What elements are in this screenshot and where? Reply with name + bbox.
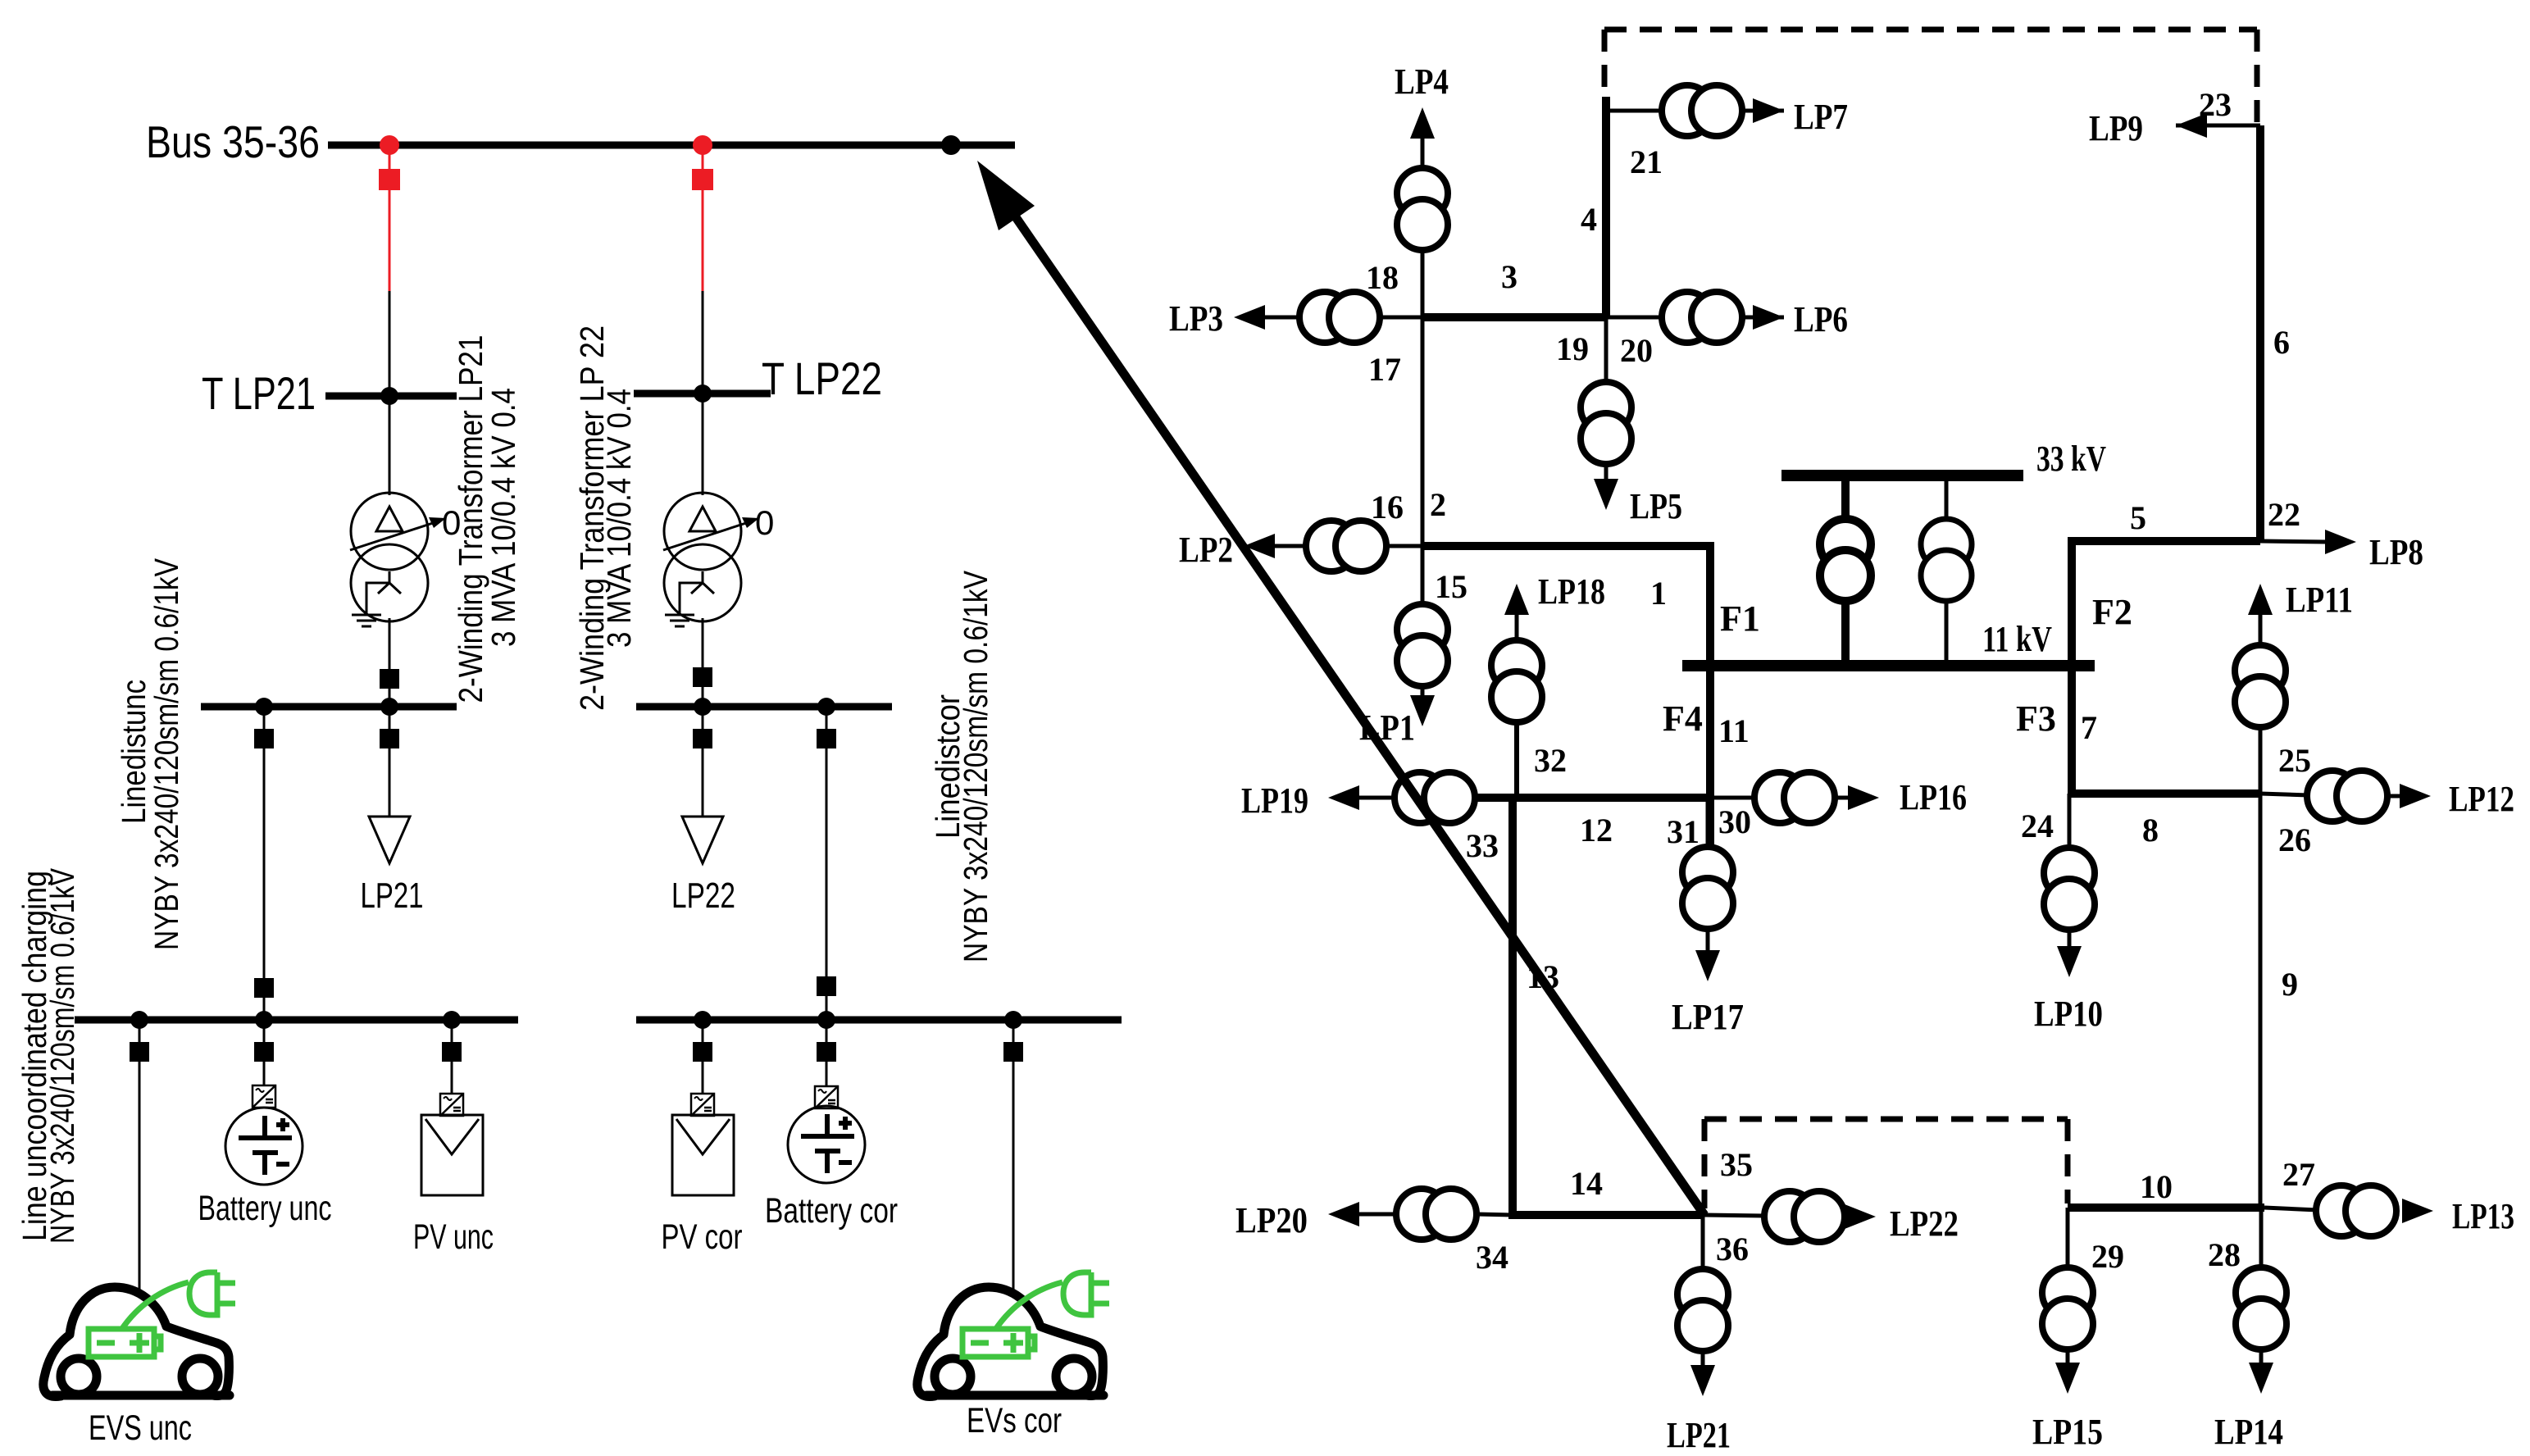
svg-text:1: 1 xyxy=(1650,575,1667,612)
svg-text:35: 35 xyxy=(1720,1146,1753,1183)
svg-text:LP16: LP16 xyxy=(1900,777,1967,817)
svg-text:LP20: LP20 xyxy=(1235,1200,1308,1240)
svg-text:27: 27 xyxy=(2282,1156,2315,1193)
svg-text:33: 33 xyxy=(1466,827,1499,864)
svg-text:2: 2 xyxy=(1430,486,1446,523)
svg-text:11 kV: 11 kV xyxy=(1982,619,2052,659)
svg-text:LP3: LP3 xyxy=(1169,298,1223,339)
svg-text:F4: F4 xyxy=(1663,698,1703,739)
svg-text:28: 28 xyxy=(2208,1236,2241,1273)
svg-text:T LP21: T LP21 xyxy=(202,367,316,419)
svg-text:NYBY 3x240/120sm/sm 0.6/1kV: NYBY 3x240/120sm/sm 0.6/1kV xyxy=(148,557,185,950)
svg-text:LP10: LP10 xyxy=(2034,994,2103,1034)
svg-text:12: 12 xyxy=(1580,812,1613,849)
svg-text:LP21: LP21 xyxy=(361,876,424,916)
svg-text:4: 4 xyxy=(1581,201,1597,238)
svg-text:25: 25 xyxy=(2278,742,2311,779)
svg-text:LP5: LP5 xyxy=(1630,486,1682,526)
svg-text:LP12: LP12 xyxy=(2449,779,2514,819)
svg-text:33 kV: 33 kV xyxy=(2036,439,2106,479)
svg-text:6: 6 xyxy=(2273,324,2290,361)
svg-text:18: 18 xyxy=(1366,259,1399,296)
svg-text:LP13: LP13 xyxy=(2452,1196,2514,1236)
svg-text:7: 7 xyxy=(2081,709,2097,746)
svg-text:LP18: LP18 xyxy=(1538,571,1605,612)
svg-text:Battery cor: Battery cor xyxy=(765,1191,898,1231)
svg-text:PV unc: PV unc xyxy=(413,1217,494,1257)
svg-text:19: 19 xyxy=(1556,330,1589,367)
svg-text:15: 15 xyxy=(1435,568,1467,605)
svg-text:3: 3 xyxy=(1501,258,1518,295)
svg-text:30: 30 xyxy=(1718,803,1751,840)
svg-text:LP19: LP19 xyxy=(1241,780,1308,821)
svg-text:LP14: LP14 xyxy=(2214,1412,2283,1452)
svg-text:17: 17 xyxy=(1368,351,1401,388)
svg-text:LP6: LP6 xyxy=(1794,299,1848,339)
svg-text:LP21: LP21 xyxy=(1667,1415,1731,1455)
svg-text:T LP22: T LP22 xyxy=(762,353,882,404)
svg-text:34: 34 xyxy=(1476,1239,1508,1276)
svg-text:22: 22 xyxy=(2268,496,2300,533)
svg-text:29: 29 xyxy=(2091,1238,2124,1275)
svg-text:LP11: LP11 xyxy=(2286,580,2353,620)
svg-text:LP9: LP9 xyxy=(2089,108,2143,148)
svg-text:LP4: LP4 xyxy=(1395,61,1449,102)
svg-text:8: 8 xyxy=(2142,812,2159,849)
svg-text:EVS unc: EVS unc xyxy=(89,1408,192,1448)
svg-text:21: 21 xyxy=(1630,143,1663,180)
svg-text:LP2: LP2 xyxy=(1179,530,1233,570)
svg-text:EVs cor: EVs cor xyxy=(967,1401,1062,1440)
svg-text:LP17: LP17 xyxy=(1672,997,1744,1037)
svg-text:11: 11 xyxy=(1718,712,1750,749)
svg-text:LP22: LP22 xyxy=(671,876,735,916)
svg-text:NYBY 3x240/120sm/sm 0.6/1kV: NYBY 3x240/120sm/sm 0.6/1kV xyxy=(957,570,994,962)
svg-text:NYBY 3x240/120sm/sm 0.6/1kV: NYBY 3x240/120sm/sm 0.6/1kV xyxy=(43,867,81,1244)
svg-text:F1: F1 xyxy=(1720,598,1760,639)
svg-text:5: 5 xyxy=(2130,499,2146,536)
svg-text:14: 14 xyxy=(1570,1165,1603,1202)
svg-text:31: 31 xyxy=(1667,813,1700,850)
svg-text:LP15: LP15 xyxy=(2032,1412,2103,1452)
svg-text:9: 9 xyxy=(2282,966,2298,1003)
svg-text:LP22: LP22 xyxy=(1890,1203,1959,1244)
svg-text:10: 10 xyxy=(2140,1168,2173,1205)
svg-text:26: 26 xyxy=(2278,821,2311,858)
svg-text:LP7: LP7 xyxy=(1794,97,1848,137)
svg-text:LP8: LP8 xyxy=(2369,532,2423,572)
svg-text:32: 32 xyxy=(1534,742,1567,779)
svg-text:24: 24 xyxy=(2021,808,2054,844)
svg-text:3 MVA 10/0.4 kV 0.4: 3 MVA 10/0.4 kV 0.4 xyxy=(600,389,638,648)
svg-text:F2: F2 xyxy=(2092,592,2132,632)
svg-text:F3: F3 xyxy=(2016,698,2056,739)
svg-text:20: 20 xyxy=(1620,332,1653,369)
svg-text:16: 16 xyxy=(1371,489,1404,526)
svg-text:23: 23 xyxy=(2199,86,2232,123)
svg-text:3 MVA 10/0.4 kV 0.4: 3 MVA 10/0.4 kV 0.4 xyxy=(485,388,522,647)
svg-text:Bus 35-36: Bus 35-36 xyxy=(146,116,320,167)
svg-text:Battery unc: Battery unc xyxy=(198,1189,332,1228)
svg-text:36: 36 xyxy=(1716,1231,1749,1267)
svg-text:PV cor: PV cor xyxy=(662,1217,743,1257)
